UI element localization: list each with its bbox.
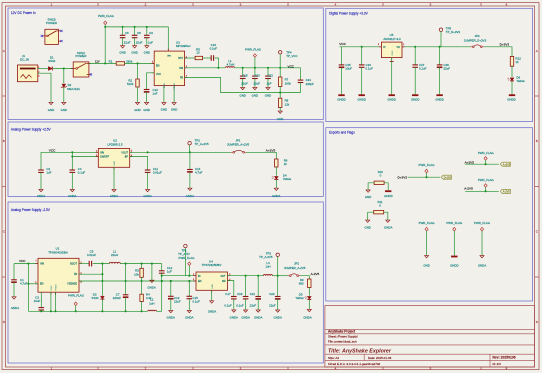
svg-text:A+2V5: A+2V5 xyxy=(266,149,276,153)
svg-text:Yellow: Yellow xyxy=(283,177,292,181)
svg-text:0.1uF: 0.1uF xyxy=(236,303,244,307)
svg-text:GNDA: GNDA xyxy=(208,309,216,313)
svg-text:KiCad E.D.A. 9.0.3-rc1-1-gaa44: KiCad E.D.A. 9.0.3-rc1-1-gaa44ca273d xyxy=(328,362,381,366)
svg-text:10: 10 xyxy=(196,51,200,55)
svg-text:22uF: 22uF xyxy=(250,303,257,307)
svg-text:VCC: VCC xyxy=(19,259,26,263)
svg-text:PWR_FLAG: PWR_FLAG xyxy=(478,178,495,182)
svg-text:POWER: POWER xyxy=(76,54,87,58)
svg-text:VCC: VCC xyxy=(156,73,161,76)
svg-text:PGND: PGND xyxy=(174,83,176,90)
svg-text:JP3: JP3 xyxy=(475,34,480,38)
svg-text:SS34: SS34 xyxy=(91,296,98,300)
svg-text:BST: BST xyxy=(178,57,183,60)
svg-text:Date: 2025-01-06: Date: 2025-01-06 xyxy=(368,356,392,360)
svg-text:GND: GND xyxy=(61,108,67,112)
svg-text:C20: C20 xyxy=(254,73,260,77)
svg-text:PWR_FLAG: PWR_FLAG xyxy=(245,47,262,51)
svg-text:A-2V5: A-2V5 xyxy=(464,187,473,191)
svg-text:Title: AnyShake Explorer: Title: AnyShake Explorer xyxy=(328,348,392,354)
svg-text:GND: GND xyxy=(134,108,140,112)
svg-text:1uF: 1uF xyxy=(46,170,51,174)
svg-text:22uF: 22uF xyxy=(443,66,450,70)
svg-text:PWR_FLAG: PWR_FLAG xyxy=(419,221,436,225)
svg-text:0.01uF: 0.01uF xyxy=(87,253,96,257)
svg-text:GNDA: GNDA xyxy=(241,315,249,319)
svg-text:A-2V5: A-2V5 xyxy=(503,190,511,193)
svg-text:GND: GND xyxy=(48,108,54,112)
svg-text:NR: NR xyxy=(222,280,226,283)
svg-text:PGND: PGND xyxy=(56,284,58,291)
svg-text:VOUT: VOUT xyxy=(121,151,128,154)
svg-text:GND: GND xyxy=(171,108,177,112)
svg-text:GNDD: GNDD xyxy=(411,98,420,102)
svg-text:C21: C21 xyxy=(250,292,256,296)
svg-text:LP2985-2.5: LP2985-2.5 xyxy=(108,143,123,147)
svg-text:A-2V5: A-2V5 xyxy=(311,272,320,276)
svg-text:Rev: 20250106: Rev: 20250106 xyxy=(493,356,516,360)
svg-text:GNDA: GNDA xyxy=(11,306,19,310)
svg-text:SMAJ12A: SMAJ12A xyxy=(67,87,80,91)
svg-text:GND: GND xyxy=(114,161,116,166)
svg-text:BP: BP xyxy=(125,156,129,159)
svg-text:R1: R1 xyxy=(109,60,113,64)
svg-text:SS34: SS34 xyxy=(48,59,55,63)
svg-text:A+2V5: A+2V5 xyxy=(503,163,511,166)
svg-text:GNDA: GNDA xyxy=(37,194,45,198)
svg-text:AMS1117-3.3: AMS1117-3.3 xyxy=(383,37,401,41)
svg-text:GNDA: GNDA xyxy=(254,315,262,319)
svg-text:VSENSE: VSENSE xyxy=(67,283,77,286)
svg-text:TP_A-2V5: TP_A-2V5 xyxy=(259,255,273,259)
svg-text:22uH: 22uH xyxy=(111,253,118,257)
svg-text:GNDD: GNDD xyxy=(337,98,346,102)
svg-text:GNDD: GNDD xyxy=(507,98,516,102)
svg-text:PWR_FLAG: PWR_FLAG xyxy=(446,221,463,225)
svg-text:JUMPER_A+2V5: JUMPER_A+2V5 xyxy=(227,142,250,146)
svg-text:Sheet: /Power Supply/: Sheet: /Power Supply/ xyxy=(328,335,358,339)
svg-text:MP2338GJ: MP2338GJ xyxy=(176,44,191,48)
svg-text:4.7uH: 4.7uH xyxy=(227,63,235,67)
svg-text:12V: 12V xyxy=(95,60,100,64)
svg-text:GND: GND xyxy=(51,285,53,290)
svg-text:Size: A4: Size: A4 xyxy=(328,356,339,360)
svg-text:510k: 510k xyxy=(127,82,134,86)
svg-text:GNDA: GNDA xyxy=(274,315,282,319)
svg-text:PWR_FLAG: PWR_FLAG xyxy=(474,221,491,225)
svg-text:TP_VCC: TP_VCC xyxy=(286,54,297,58)
svg-text:GNDA: GNDA xyxy=(384,226,392,230)
svg-text:IN: IN xyxy=(198,275,201,278)
svg-text:B: B xyxy=(3,139,5,143)
svg-text:1uF: 1uF xyxy=(153,91,158,95)
svg-text:GNDA: GNDA xyxy=(143,194,151,198)
svg-text:A: A xyxy=(536,49,538,53)
svg-text:GND: GND xyxy=(131,50,137,54)
svg-text:GND: GND xyxy=(365,195,371,199)
svg-text:D+3V3: D+3V3 xyxy=(397,176,407,180)
svg-text:PWR_FLAG: PWR_FLAG xyxy=(478,151,495,155)
svg-text:C9: C9 xyxy=(149,31,153,35)
svg-text:GNDD: GNDD xyxy=(387,98,396,102)
svg-text:GNDA: GNDA xyxy=(303,315,311,319)
svg-text:GNDA: GNDA xyxy=(110,194,118,198)
svg-text:ON/OFF: ON/OFF xyxy=(100,156,110,159)
svg-text:GNDA: GNDA xyxy=(272,194,280,198)
svg-text:C8: C8 xyxy=(137,31,141,35)
svg-text:File: power.kicad_sch: File: power.kicad_sch xyxy=(328,339,357,343)
svg-text:EN: EN xyxy=(40,283,44,286)
svg-text:TP_D+3V3: TP_D+3V3 xyxy=(446,30,461,34)
svg-text:22uF: 22uF xyxy=(253,82,260,86)
svg-text:C18: C18 xyxy=(242,73,248,77)
svg-text:22uF: 22uF xyxy=(241,82,248,86)
svg-text:Digital Power Supply +3.3V: Digital Power Supply +3.3V xyxy=(329,12,369,16)
svg-text:C22: C22 xyxy=(268,73,274,77)
svg-text:GNDD: GNDD xyxy=(384,194,393,198)
svg-text:JP2: JP2 xyxy=(294,262,299,266)
svg-text:220pF: 220pF xyxy=(306,82,314,86)
svg-text:TPS72325DBV: TPS72325DBV xyxy=(202,263,222,267)
svg-text:Id: 2/4: Id: 2/4 xyxy=(493,362,502,366)
svg-text:0.1uF: 0.1uF xyxy=(193,299,201,303)
svg-text:EN: EN xyxy=(198,280,202,283)
svg-text:GND: GND xyxy=(144,50,150,54)
svg-text:PWR_FLAG: PWR_FLAG xyxy=(419,163,436,167)
svg-text:OUT: OUT xyxy=(220,275,226,278)
svg-text:JUMPER_D+3V3: JUMPER_D+3V3 xyxy=(464,39,487,43)
svg-text:VCC: VCC xyxy=(49,149,56,153)
svg-text:D+3V3: D+3V3 xyxy=(444,176,452,179)
svg-text:10uF: 10uF xyxy=(345,66,352,70)
svg-text:GNDA: GNDA xyxy=(478,264,486,268)
svg-text:A+2V5: A+2V5 xyxy=(465,161,475,165)
svg-text:220uF: 220uF xyxy=(113,296,121,300)
svg-text:PWR_FLAG: PWR_FLAG xyxy=(98,14,115,18)
svg-text:1uF: 1uF xyxy=(267,82,272,86)
svg-text:VIN: VIN xyxy=(40,263,44,266)
svg-text:PWR_FLAG: PWR_FLAG xyxy=(179,256,196,260)
svg-text:680: 680 xyxy=(299,282,304,286)
svg-text:GND: GND xyxy=(277,117,283,121)
svg-text:GND: GND xyxy=(392,50,394,55)
svg-text:GNDA: GNDA xyxy=(230,315,238,319)
svg-text:VO: VO xyxy=(397,46,401,49)
svg-text:Analog Power Supply +2.5V: Analog Power Supply +2.5V xyxy=(11,128,52,132)
svg-text:GNDA: GNDA xyxy=(68,194,76,198)
svg-text:C6: C6 xyxy=(125,31,129,35)
svg-text:22uF: 22uF xyxy=(124,40,131,44)
svg-text:1uH: 1uH xyxy=(149,301,154,305)
svg-text:22uF: 22uF xyxy=(136,40,143,44)
svg-text:GND: GND xyxy=(265,94,271,98)
svg-text:GNDA: GNDA xyxy=(167,315,175,319)
svg-text:0.1uF: 0.1uF xyxy=(78,170,86,174)
svg-text:1uF: 1uF xyxy=(167,270,172,274)
svg-text:FB: FB xyxy=(180,77,183,80)
svg-text:D+3V3: D+3V3 xyxy=(500,43,510,47)
svg-text:12k: 12k xyxy=(285,102,290,106)
svg-text:0.1uF: 0.1uF xyxy=(210,47,218,51)
svg-text:VIN: VIN xyxy=(100,151,104,154)
svg-text:VCC: VCC xyxy=(288,64,295,68)
svg-text:330k: 330k xyxy=(126,60,133,64)
svg-text:C19: C19 xyxy=(237,292,243,296)
svg-text:GNDA: GNDA xyxy=(186,194,194,198)
svg-text:BOOT: BOOT xyxy=(70,263,77,266)
svg-text:DC_IN: DC_IN xyxy=(20,58,29,62)
svg-text:JUMPER_A-2V5: JUMPER_A-2V5 xyxy=(284,266,306,270)
svg-text:PWR_FLAG: PWR_FLAG xyxy=(68,294,85,298)
svg-text:22uF: 22uF xyxy=(174,299,181,303)
svg-text:GNDD: GNDD xyxy=(435,98,444,102)
svg-text:GNDA: GNDA xyxy=(147,285,155,289)
svg-text:GND: GND xyxy=(164,83,166,88)
svg-text:C23: C23 xyxy=(269,292,275,296)
svg-text:1uH: 1uH xyxy=(265,265,270,269)
svg-text:TPS60403DBA: TPS60403DBA xyxy=(48,250,68,254)
svg-text:0.01uF: 0.01uF xyxy=(153,170,162,174)
svg-text:GND: GND xyxy=(252,94,258,98)
svg-text:B: B xyxy=(536,139,538,143)
svg-text:0.1uF: 0.1uF xyxy=(224,303,232,307)
svg-text:GND: GND xyxy=(423,264,429,268)
svg-text:GNDD: GNDD xyxy=(450,264,459,268)
svg-text:VIN: VIN xyxy=(167,56,171,58)
svg-text:GND: GND xyxy=(239,94,245,98)
svg-text:1uF: 1uF xyxy=(148,40,153,44)
svg-text:GND: GND xyxy=(143,108,149,112)
svg-text:Exports and Flags: Exports and Flags xyxy=(329,130,355,134)
svg-text:C17: C17 xyxy=(225,292,231,296)
svg-text:FB: FB xyxy=(74,273,77,276)
svg-text:EN: EN xyxy=(156,64,160,67)
svg-text:VCC: VCC xyxy=(339,42,346,46)
svg-text:POWER: POWER xyxy=(46,21,57,25)
svg-text:10k: 10k xyxy=(134,272,139,276)
svg-text:0.1uF: 0.1uF xyxy=(366,66,374,70)
svg-text:GND: GND xyxy=(364,226,370,230)
svg-text:22uF: 22uF xyxy=(269,303,276,307)
svg-text:12V DC Power In: 12V DC Power In xyxy=(11,11,36,15)
svg-text:Yellow: Yellow xyxy=(295,296,304,300)
svg-text:GNDD: GNDD xyxy=(357,98,366,102)
svg-text:A: A xyxy=(3,49,5,53)
svg-text:GND: GND xyxy=(212,284,214,289)
svg-text:4.7uF: 4.7uF xyxy=(195,170,203,174)
svg-text:TP_A+2V5: TP_A+2V5 xyxy=(195,142,209,146)
svg-text:4.7uF: 4.7uF xyxy=(20,282,28,286)
svg-text:0.1uF: 0.1uF xyxy=(419,66,427,70)
svg-text:Analog Power Supply -2.5V: Analog Power Supply -2.5V xyxy=(11,208,51,212)
svg-text:GNDA: GNDA xyxy=(185,315,193,319)
svg-text:10uF: 10uF xyxy=(34,299,41,303)
svg-text:Yellow: Yellow xyxy=(516,79,525,83)
svg-text:100k: 100k xyxy=(285,81,292,85)
svg-text:GND: GND xyxy=(119,50,125,54)
svg-text:VI: VI xyxy=(383,46,386,49)
svg-text:GND: GND xyxy=(161,108,167,112)
svg-text:AnyShake Project: AnyShake Project xyxy=(328,330,356,334)
